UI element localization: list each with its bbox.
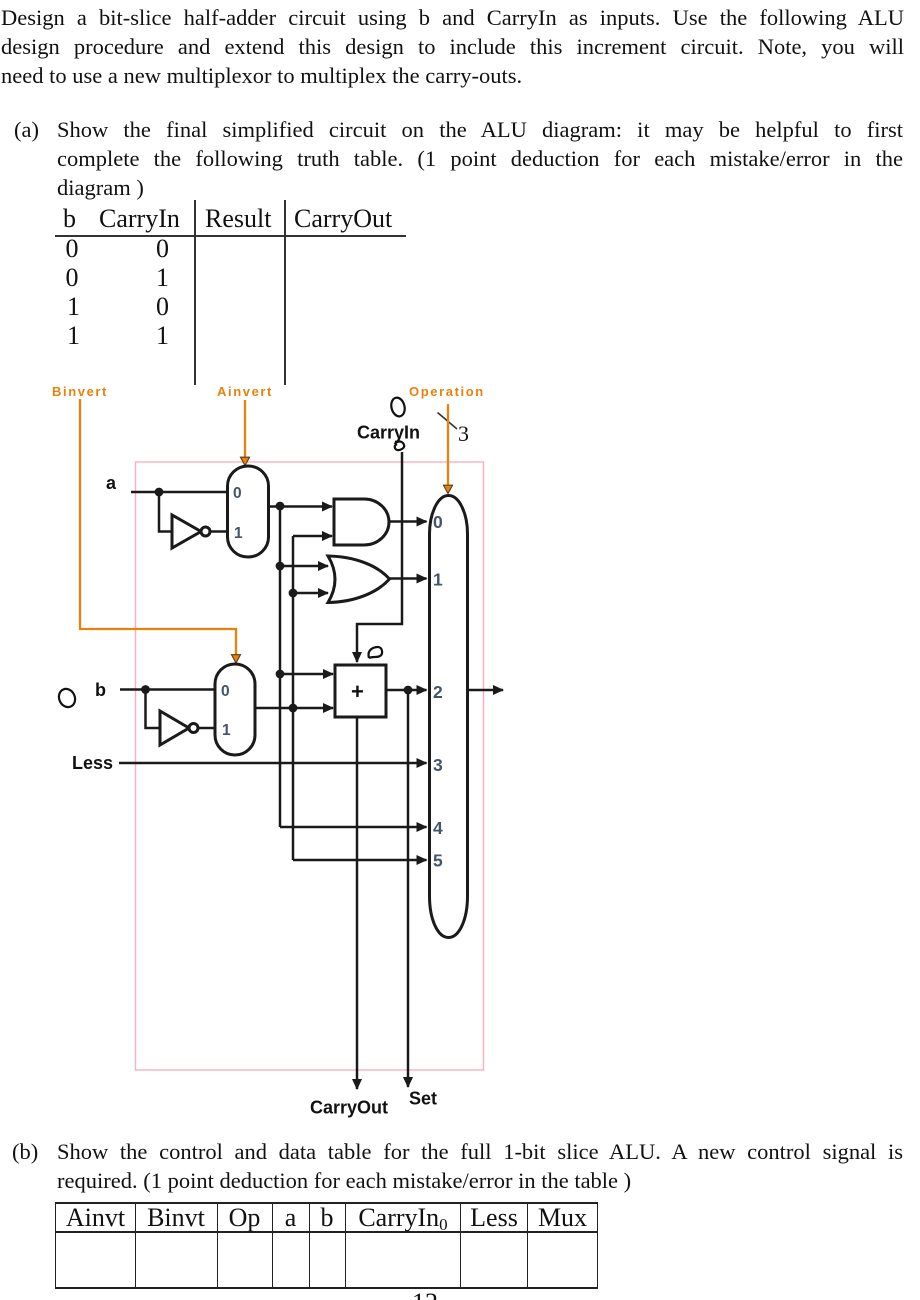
inverter a (NOT gate) bbox=[172, 515, 210, 548]
wire Ainvert control bbox=[244, 400, 246, 465]
result mux (6-input) bbox=[430, 496, 468, 938]
svg-text:2: 2 bbox=[433, 682, 443, 702]
svg-text:4: 4 bbox=[433, 818, 443, 838]
wire OR input 1 from bus A bbox=[280, 565, 328, 568]
node a junction bbox=[155, 488, 164, 497]
enclosure box (pink ALU outline) bbox=[136, 462, 484, 1070]
mux B (2-to-1, Binvert select) bbox=[215, 664, 255, 755]
annotation oval left of b bbox=[56, 686, 78, 709]
svg-text:Less: Less bbox=[72, 753, 113, 773]
svg-text:1: 1 bbox=[234, 525, 243, 542]
svg-text:Operation: Operation bbox=[409, 384, 485, 399]
node bus A at OR bbox=[276, 562, 285, 571]
svg-text:CarryOut: CarryOut bbox=[310, 1098, 388, 1118]
wire mux B output to adder input 2 bbox=[255, 707, 333, 710]
wire Operation control bbox=[447, 404, 449, 493]
item (a) bbox=[14, 115, 39, 144]
wire AND input 2 from bus B bbox=[293, 535, 332, 538]
truth table (a) bbox=[63, 204, 76, 233]
page number bbox=[412, 1288, 438, 1300]
AND gate bbox=[334, 499, 389, 545]
wire adder output to mux input 2 bbox=[386, 689, 427, 692]
wire inverter b output bbox=[198, 727, 215, 730]
inverter b (NOT gate) bbox=[160, 711, 198, 745]
node bus A top bbox=[276, 502, 285, 511]
wire OR output to mux input 1 bbox=[390, 577, 427, 580]
wire mux A output to AND input 1 bbox=[269, 505, 332, 508]
wire bus B vertical bbox=[292, 536, 295, 860]
svg-text:3: 3 bbox=[458, 421, 469, 446]
wire bus A to mux input 4 bbox=[280, 826, 427, 829]
svg-text:Binvert: Binvert bbox=[52, 384, 108, 399]
annotation squiggle above adder bbox=[369, 647, 383, 658]
svg-text:5: 5 bbox=[433, 851, 443, 871]
wire OR input 2 from bus B bbox=[293, 592, 328, 595]
svg-text:Set: Set bbox=[409, 1089, 437, 1109]
annotation oval above CarryIn bbox=[389, 396, 406, 418]
wire adder input 1 from bus A bbox=[280, 673, 333, 676]
svg-text:1: 1 bbox=[433, 570, 443, 590]
wire Binvert control bbox=[80, 399, 236, 663]
node bus A at adder bbox=[276, 670, 285, 679]
mux A (2-to-1, Ainvert select) bbox=[228, 466, 269, 557]
wire CarryIn to adder bbox=[357, 452, 402, 662]
item (b) bbox=[12, 1137, 38, 1166]
node bus B at adder bbox=[289, 704, 298, 713]
wire AND output to mux input 0 bbox=[389, 520, 427, 523]
wire Set output bbox=[407, 690, 410, 1087]
wire result output bbox=[468, 689, 504, 692]
paragraph 1 bbox=[1, 3, 904, 32]
node b junction bbox=[141, 685, 150, 694]
svg-text:1: 1 bbox=[222, 722, 231, 739]
OR gate bbox=[328, 556, 390, 603]
wire b to inverter bbox=[146, 690, 161, 729]
adder (+) bbox=[335, 665, 386, 717]
wire CarryOut output bbox=[356, 717, 359, 1089]
wire inverter a output bbox=[210, 530, 227, 533]
wire input b bbox=[120, 688, 215, 691]
wire Less to mux input 3 bbox=[119, 762, 427, 765]
svg-text:Ainvert: Ainvert bbox=[217, 384, 273, 399]
wire bus B to mux input 5 bbox=[293, 859, 427, 862]
circuit SVG bbox=[0, 380, 920, 1120]
table (b) bbox=[55, 1202, 598, 1204]
node Set junction bbox=[404, 686, 413, 695]
svg-text:0: 0 bbox=[433, 512, 443, 532]
annotation scribble on CarryIn wire bbox=[395, 441, 405, 450]
wire input a bbox=[131, 491, 227, 494]
wire bus A vertical bbox=[279, 506, 282, 827]
svg-text:CarryIn: CarryIn bbox=[357, 423, 420, 443]
bus width slash bbox=[438, 413, 458, 430]
svg-text:0: 0 bbox=[221, 683, 230, 700]
svg-text:0: 0 bbox=[233, 485, 242, 502]
svg-text:3: 3 bbox=[433, 755, 443, 775]
node bus B at OR bbox=[289, 589, 298, 598]
wire a to inverter bbox=[159, 492, 172, 532]
svg-text:a: a bbox=[106, 473, 117, 493]
svg-text:+: + bbox=[351, 679, 364, 704]
svg-text:b: b bbox=[95, 680, 106, 700]
